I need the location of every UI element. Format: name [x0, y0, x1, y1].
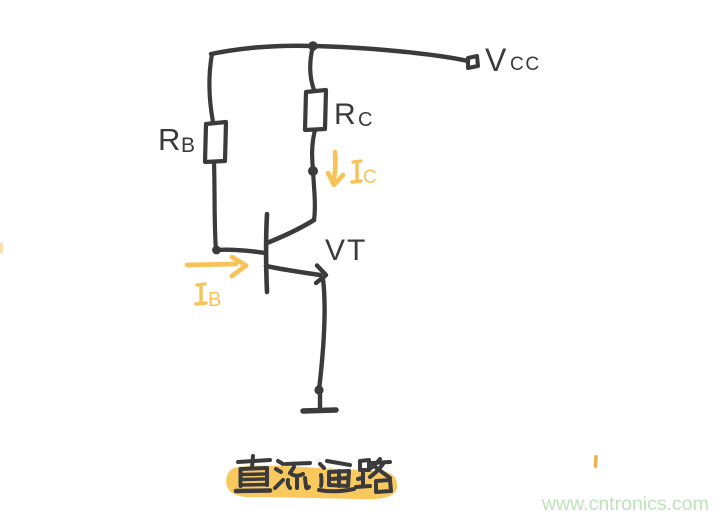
wire: top rail right segment (junction to Vcc terminal) — [313, 46, 468, 61]
label Vcc — [485, 42, 541, 78]
title highlight — [226, 466, 397, 500]
node: collector wire junction — [308, 166, 318, 176]
直 — [238, 460, 270, 462]
transistor VT: collector diagonal — [267, 220, 314, 243]
svg-text:C: C — [363, 167, 377, 188]
svg-text:R: R — [158, 122, 180, 157]
wire: RC bottom through node down to collector bend — [312, 130, 315, 220]
svg-text:VT: VT — [325, 234, 367, 267]
transistor VT: emitter diagonal — [266, 266, 320, 275]
node: base junction — [212, 246, 221, 255]
svg-text:B: B — [208, 289, 221, 311]
svg-text:B: B — [181, 134, 195, 157]
通 — [320, 464, 324, 468]
wire: emitter down to ground node — [319, 279, 325, 390]
ground — [303, 393, 336, 411]
label RC — [334, 98, 372, 131]
current arrow IC — [328, 152, 343, 185]
current arrow IB — [187, 257, 246, 276]
wire: base wire to transistor — [216, 250, 265, 253]
label RB — [158, 122, 195, 157]
wire: RB bottom to base node — [214, 162, 216, 250]
svg-text:R: R — [334, 98, 356, 131]
terminal Vcc (open square) — [468, 56, 478, 68]
resistor RC — [305, 90, 326, 130]
wire: top rail left segment (RB top to junction) — [211, 46, 313, 54]
transistor VT: emitter arrowhead — [316, 266, 326, 284]
svg-text:V: V — [485, 42, 507, 78]
title text 直流通路 (hand-drawn strokes) — [236, 456, 391, 492]
node: emitter/ground junction — [314, 385, 323, 394]
wire: junction down to RC — [310, 46, 314, 90]
node: top rail junction — [308, 41, 318, 51]
svg-text:www.cntronics.com: www.cntronics.com — [541, 493, 709, 515]
resistor RB — [205, 122, 226, 162]
svg-text:C: C — [358, 109, 372, 131]
label IB — [196, 284, 221, 311]
label IC — [352, 161, 377, 188]
流 — [278, 461, 283, 464]
路 — [360, 460, 369, 470]
transistor VT: bar — [264, 214, 270, 292]
wire: Vcc rail down to RB — [209, 54, 213, 122]
svg-text:CC: CC — [510, 54, 541, 75]
